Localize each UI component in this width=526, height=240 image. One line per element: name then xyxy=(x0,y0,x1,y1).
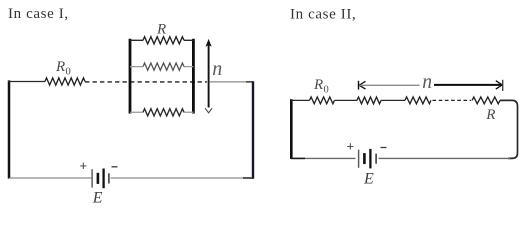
resistor R top branch xyxy=(143,37,184,44)
wire top-left segment to R0 xyxy=(8,81,45,83)
resistor bottom branch xyxy=(143,109,184,116)
resistor 3 (case II) xyxy=(405,97,431,104)
svg-text:0: 0 xyxy=(66,67,71,78)
wire top branch leads xyxy=(130,39,193,41)
wire middle branch leads (gray) xyxy=(130,66,193,68)
label - (case II battery) xyxy=(381,147,387,149)
wire bottom branch leads (gray) xyxy=(130,111,193,113)
svg-text:n: n xyxy=(422,72,432,93)
wire top run with gaps for resistors (case II) xyxy=(291,99,405,101)
svg-text:In case II,: In case II, xyxy=(290,7,356,23)
label - (case I battery) xyxy=(112,166,118,168)
svg-text:R: R xyxy=(313,77,323,93)
svg-text:R: R xyxy=(55,59,65,75)
resistor R0 (case I) xyxy=(45,78,85,85)
wire dashed continuation through block xyxy=(85,81,207,83)
wire right vertical with rounded corners (case II) xyxy=(500,100,518,158)
svg-text:R: R xyxy=(485,107,495,123)
rail left (parallel block) xyxy=(129,39,132,114)
node junction at right rail xyxy=(192,80,195,83)
wire bottom (right of battery) xyxy=(111,177,253,179)
svg-text:E: E xyxy=(92,189,103,204)
resistor middle branch xyxy=(143,63,184,70)
wire right vertical (case I) xyxy=(252,81,254,178)
wire bottom (left of battery, gray) xyxy=(9,177,91,179)
arrow n (vertical double arrow, case I) xyxy=(205,39,212,113)
resistor R0 (case II) xyxy=(310,97,335,104)
wire bottom (left of battery, case II) xyxy=(291,157,356,159)
svg-text:E: E xyxy=(363,170,374,187)
svg-text:+: + xyxy=(347,139,355,154)
battery E (case II) xyxy=(359,149,377,169)
wire left vertical (case II) xyxy=(290,99,293,159)
wire dashed (case II) xyxy=(433,99,472,101)
measure arrow n (case II) xyxy=(359,80,503,91)
resistor R (case II) xyxy=(472,97,500,104)
battery E (case I) xyxy=(92,169,109,189)
svg-text:R: R xyxy=(156,22,166,38)
svg-text:n: n xyxy=(212,58,222,80)
resistor 2 (case II) xyxy=(357,97,381,104)
svg-text:In case I,: In case I, xyxy=(8,6,69,22)
svg-text:0: 0 xyxy=(324,85,329,96)
wire right top segment (gray) xyxy=(210,81,246,83)
wire into top-right corner xyxy=(246,81,253,83)
wire bottom (right of battery, case II) xyxy=(379,157,511,159)
rail right (parallel block) xyxy=(192,39,195,114)
wire left vertical (case I) xyxy=(8,80,11,178)
svg-text:+: + xyxy=(80,158,88,173)
